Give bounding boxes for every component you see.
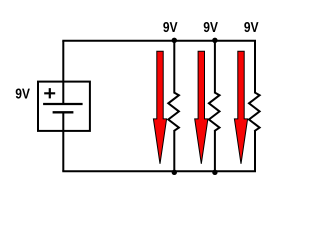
voltage arrow 2 (red, downward) bbox=[195, 51, 208, 164]
wire: bottom horizontal bus bbox=[62, 170, 256, 172]
voltage arrow 1 (red, downward) bbox=[153, 51, 166, 164]
battery B1 positive plate bbox=[43, 103, 83, 105]
resistor R1 bbox=[168, 92, 179, 131]
wire: branch 2 top segment bbox=[214, 41, 216, 93]
wire: top horizontal bus bbox=[62, 40, 256, 42]
junction dot: bottom node branch 1 bbox=[172, 170, 177, 175]
node label 9V branch 3 bbox=[244, 22, 258, 32]
wire: branch 1 bottom segment bbox=[173, 131, 175, 171]
battery B1 value label 9V bbox=[16, 89, 30, 99]
node label 9V branch 2 bbox=[204, 22, 218, 32]
resistor R2 bbox=[209, 92, 220, 131]
junction dot: top node branch 2 bbox=[212, 38, 217, 43]
wire: branch 2 bottom segment bbox=[214, 131, 216, 171]
voltage arrow 3 (red, downward) bbox=[234, 51, 247, 164]
wire: branch 1 top segment bbox=[173, 41, 175, 93]
resistor R3 bbox=[249, 92, 260, 131]
node label 9V branch 1 bbox=[163, 22, 177, 32]
wire: battery bottom lead to bottom-left corner bbox=[62, 112, 64, 171]
junction dot: bottom node branch 2 bbox=[212, 170, 217, 175]
battery B1 plus sign bbox=[44, 88, 55, 98]
battery B1 negative plate bbox=[53, 111, 74, 113]
wire: branch 3 bottom segment bbox=[254, 131, 256, 171]
wire: battery top lead to top-left corner bbox=[62, 41, 64, 104]
battery B1 box bbox=[38, 82, 90, 131]
junction dot: top node branch 1 bbox=[172, 38, 177, 43]
wire: branch 3 top segment (right side of loop) bbox=[254, 41, 256, 93]
